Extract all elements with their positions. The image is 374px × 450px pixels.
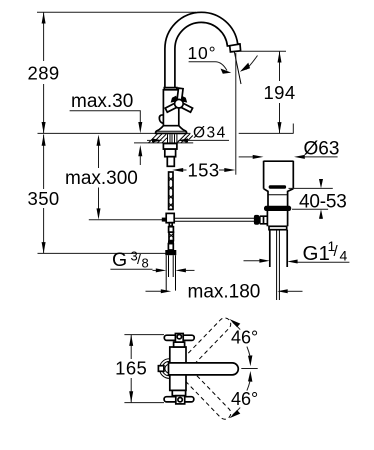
svg-text:Ø63: Ø63 xyxy=(304,139,340,160)
arrowhead 350 top xyxy=(42,135,46,146)
connector below locknut xyxy=(165,149,176,157)
G3/8 threaded fitting (dark) xyxy=(165,250,176,255)
max.30 leader underline xyxy=(70,111,141,123)
svg-text:165: 165 xyxy=(115,357,147,378)
350 bottom reference line (hose end level) xyxy=(38,252,166,254)
lower rod hatched xyxy=(169,232,173,240)
faucet body (plan) xyxy=(170,347,186,390)
water stream 10 degree line xyxy=(234,52,241,84)
arrowhead 153 right xyxy=(224,168,235,172)
lower rod coupler xyxy=(169,227,174,233)
arrowhead max.300 top xyxy=(97,135,101,146)
G1 1/4 arrows xyxy=(244,260,261,262)
flange shoulder xyxy=(264,189,294,206)
G1 1/4 leader underline xyxy=(297,261,350,263)
top extension line (spout top reference) xyxy=(37,11,196,13)
svg-text:289: 289 xyxy=(28,63,60,84)
dimension 350 vertical line xyxy=(43,135,45,190)
junction lower stub xyxy=(169,223,172,226)
deck edge tick at right xyxy=(292,124,294,134)
neck joint line xyxy=(268,194,288,196)
rod knob (black) xyxy=(254,215,259,225)
mounting locknut xyxy=(163,144,177,150)
arrowhead 165 top xyxy=(129,335,133,346)
arrowhead max.30 down to deck top xyxy=(138,122,142,133)
spout (plan) xyxy=(169,363,239,375)
arrowhead 153 left xyxy=(172,168,183,172)
dimension 153 line xyxy=(183,169,187,171)
arrowhead arc lower top end xyxy=(248,371,252,382)
junction left cap xyxy=(162,218,166,222)
svg-text:10°: 10° xyxy=(188,43,217,63)
faucet column collar xyxy=(164,88,177,90)
outlet vertical reference line xyxy=(235,53,237,175)
svg-text:max.180: max.180 xyxy=(188,281,261,302)
arrowhead arc upper bottom end xyxy=(248,355,252,366)
arrowhead 289 bottom xyxy=(42,122,46,133)
dimension line diameter 63 xyxy=(239,156,253,158)
cross handle lower-right spoke xyxy=(178,102,193,113)
dimension 289 vertical line xyxy=(43,12,45,61)
svg-text:40-53: 40-53 xyxy=(299,192,347,213)
horizontal actuating rod to drain xyxy=(174,217,254,219)
base escutcheon xyxy=(156,126,187,134)
tailpiece inner pipe xyxy=(276,230,278,300)
dimension max.300 vertical line xyxy=(98,146,100,169)
drain pop-up waste: upper cylinder xyxy=(264,161,294,189)
40-53 bottom reference line xyxy=(292,208,328,210)
arrowhead 350 bottom xyxy=(42,242,46,253)
handle hub circle xyxy=(175,99,184,108)
pop-up pull lever xyxy=(159,115,163,124)
spout gooseneck outer contour xyxy=(165,12,240,88)
top cross handle (plan) xyxy=(164,334,194,343)
svg-text:153: 153 xyxy=(187,160,219,181)
max.30 lower arrow to deck bottom xyxy=(139,156,141,165)
40-53 arrows xyxy=(320,180,322,184)
dimension 194 vertical line xyxy=(279,51,281,81)
left tab xyxy=(158,366,164,372)
dimension 165 vertical line xyxy=(130,335,132,359)
drain body below locknut xyxy=(267,211,287,226)
cross handle lower-left spoke xyxy=(165,102,180,113)
rod end black band xyxy=(168,241,174,244)
10 degree leader with arc xyxy=(189,62,227,71)
swivel arc lower xyxy=(233,408,241,415)
arrowhead max.300 bottom xyxy=(97,208,101,219)
165 bottom extension line xyxy=(124,402,164,404)
G 3/8 arrows xyxy=(153,269,157,271)
svg-text:4: 4 xyxy=(340,248,348,264)
arrowhead 194 top xyxy=(278,51,282,62)
dimension max.180 line xyxy=(146,290,163,292)
rod junction block xyxy=(166,213,174,222)
spout gooseneck inner contour xyxy=(175,22,230,88)
swivel range dashed outline upper xyxy=(183,316,233,367)
svg-text:max.30: max.30 xyxy=(71,91,133,112)
pop-up rod upper section (hatched) xyxy=(169,172,173,209)
drain body ring xyxy=(269,226,287,229)
pop-up rod reference line (max.300 bottom reference) xyxy=(89,219,166,221)
bottom cross handle (plan) xyxy=(164,396,194,404)
svg-text:350: 350 xyxy=(28,188,60,209)
top bonnet (plan) xyxy=(174,342,185,347)
bottom bonnet (plan) xyxy=(172,390,185,395)
cross handle top spoke xyxy=(165,88,192,112)
arrowhead 289 top xyxy=(42,12,46,23)
svg-text:G: G xyxy=(112,249,127,271)
deck bottom line xyxy=(134,142,193,144)
swivel joint circles xyxy=(160,359,180,379)
deck top line left segment xyxy=(38,132,191,134)
mounting shank in deck hole xyxy=(168,134,177,143)
faucet upper body xyxy=(163,90,178,126)
side inlet joint xyxy=(260,216,268,224)
stem with bands xyxy=(168,244,173,250)
deck top line right segment (at drain) xyxy=(239,132,294,134)
svg-text:46°: 46° xyxy=(231,327,258,347)
G 3/8 leader underline xyxy=(110,268,152,270)
narrow adapter xyxy=(167,157,174,167)
165 top extension line xyxy=(124,334,164,336)
svg-text:G1: G1 xyxy=(303,242,330,265)
arrowhead arc lower bottom end xyxy=(229,410,240,418)
handle hub shading xyxy=(171,96,177,103)
arrowhead 194 bottom xyxy=(278,122,282,133)
dimension 194 extension line (outlet level) xyxy=(240,50,286,52)
dimension line diameter 34 xyxy=(147,139,153,141)
svg-text:/: / xyxy=(137,251,141,267)
deck hatch left of faucet xyxy=(149,134,168,143)
spout tip tick xyxy=(241,368,257,370)
svg-text:194: 194 xyxy=(263,82,295,103)
svg-text:8: 8 xyxy=(142,256,149,271)
swivel arc upper xyxy=(233,322,241,329)
locknut (black) xyxy=(264,206,291,211)
svg-text:46°: 46° xyxy=(231,389,258,409)
escutcheon rim line xyxy=(156,130,187,132)
arrowhead 165 bottom xyxy=(129,391,133,402)
svg-text:max.300: max.300 xyxy=(65,168,138,189)
spout tip cap xyxy=(230,44,241,52)
arrowhead arc upper top end xyxy=(229,319,240,327)
supply hoses xyxy=(166,255,175,290)
plug top bar (black) xyxy=(269,185,286,189)
svg-text:Ø34: Ø34 xyxy=(193,125,227,142)
tailpiece outer pipe (G1 1/4 thread) xyxy=(269,230,271,267)
deck hatch right of faucet xyxy=(178,134,193,143)
swivel range dashed outline lower xyxy=(183,370,233,421)
40-53 top reference line xyxy=(289,187,333,189)
